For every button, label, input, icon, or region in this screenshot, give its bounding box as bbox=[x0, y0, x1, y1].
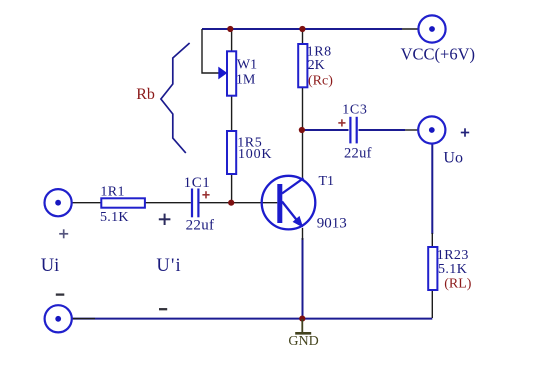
svg-text:T1: T1 bbox=[319, 174, 335, 189]
svg-text:1C3: 1C3 bbox=[342, 103, 367, 118]
svg-text:5.1K: 5.1K bbox=[438, 262, 467, 277]
svg-text:W1: W1 bbox=[237, 58, 257, 73]
svg-text:9013: 9013 bbox=[317, 216, 347, 232]
svg-text:22uf: 22uf bbox=[186, 217, 215, 233]
svg-text:(RL): (RL) bbox=[444, 277, 472, 292]
svg-text:Ui: Ui bbox=[41, 256, 60, 276]
svg-text:1R23: 1R23 bbox=[437, 248, 469, 263]
svg-text:(Rc): (Rc) bbox=[308, 74, 333, 89]
svg-text:1C1: 1C1 bbox=[184, 175, 211, 191]
svg-text:5.1K: 5.1K bbox=[100, 210, 129, 225]
svg-text:Rb: Rb bbox=[136, 86, 155, 103]
svg-text:22uf: 22uf bbox=[344, 146, 372, 162]
svg-text:Uo: Uo bbox=[443, 150, 463, 167]
svg-text:2K: 2K bbox=[308, 58, 325, 73]
svg-text:U'i: U'i bbox=[156, 256, 181, 276]
svg-text:1R1: 1R1 bbox=[100, 185, 125, 200]
svg-text:100K: 100K bbox=[238, 147, 272, 162]
svg-text:VCC(+6V): VCC(+6V) bbox=[401, 45, 475, 64]
svg-text:1M: 1M bbox=[236, 73, 256, 88]
svg-text:GND: GND bbox=[288, 334, 318, 349]
